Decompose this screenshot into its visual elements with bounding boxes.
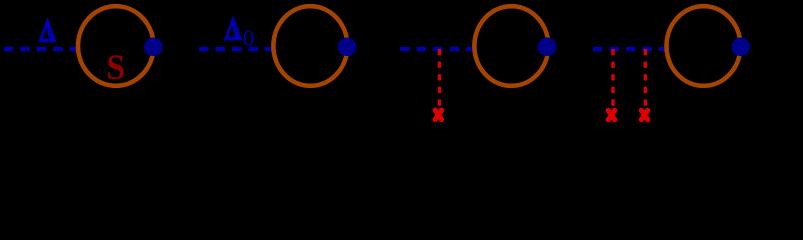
vertex dot (diagram 4) (731, 38, 750, 57)
wire: dashed propagator line (diagram 4) (593, 47, 665, 52)
wire: red dashed counterterm line (diagram 3) (438, 49, 441, 107)
counterterm cross (diagram 3) (435, 110, 441, 119)
wire: red dashed counterterm line 2 (diagram 4) (644, 49, 647, 107)
vertex dot (diagram 1) (144, 38, 163, 57)
wire: dashed propagator line (diagram 3) (400, 47, 474, 52)
label Delta (diagram 1) (38, 17, 57, 43)
label Delta0 (diagram 2) (224, 15, 255, 51)
loop (diagram 4) (667, 6, 741, 86)
counterterm cross 1 (diagram 4) (608, 110, 614, 119)
loop (diagram 2) (273, 6, 347, 86)
vertex dot (diagram 3) (538, 38, 557, 57)
counterterm cross 2 (diagram 4) (641, 110, 647, 119)
loop S (diagram 1) (78, 6, 154, 86)
vertex dot (diagram 2) (338, 38, 357, 57)
svg-text:S: S (106, 47, 125, 87)
svg-text:0: 0 (243, 26, 255, 51)
loop (diagram 3) (474, 6, 548, 86)
wire: dashed propagator line Delta0 (diagram 2) (199, 47, 275, 52)
wire: dashed propagator line Delta (diagram 1) (4, 47, 78, 52)
wire: red dashed counterterm line 1 (diagram 4) (611, 49, 614, 107)
